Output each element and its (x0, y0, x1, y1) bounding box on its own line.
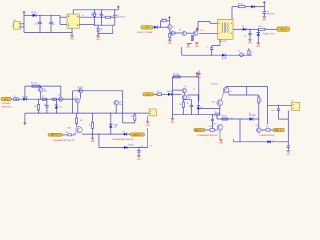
svg-text:GND: GND (90, 141, 95, 143)
svg-text:485_A: 485_A (280, 28, 286, 31)
svg-text:R2 10k: R2 10k (162, 18, 167, 20)
svg-text:5V1: 5V1 (59, 106, 62, 108)
svg-text:10k: 10k (34, 106, 37, 108)
svg-text:10k: 10k (179, 104, 182, 106)
svg-text:Q7: Q7 (75, 97, 77, 99)
svg-text:R11 100: R11 100 (221, 116, 227, 118)
svg-text:104: 104 (52, 24, 55, 26)
svg-text:1.5k&R69(R73)&C35!: 1.5k&R69(R73)&C35! (197, 135, 219, 137)
svg-text:GND: GND (170, 122, 175, 124)
svg-text:D6: D6 (249, 113, 251, 115)
svg-text:GND: GND (96, 39, 101, 41)
svg-text:1N4148W: 1N4148W (249, 115, 256, 117)
svg-text:R4 300: R4 300 (238, 3, 243, 5)
svg-text:1k: 1k (266, 124, 268, 126)
svg-text:100k: 100k (91, 15, 95, 17)
svg-text:P1: P1 (14, 20, 16, 22)
svg-text:GND: GND (70, 39, 75, 41)
svg-text:FB4.3V, 5.2V&6A!!: FB4.3V, 5.2V&6A!! (137, 31, 153, 34)
svg-text:C1: C1 (37, 22, 39, 24)
svg-text:4k7: 4k7 (171, 35, 174, 37)
svg-text:R10: R10 (66, 132, 69, 134)
svg-text:Q2: Q2 (179, 30, 181, 32)
svg-text:1N4148: 1N4148 (167, 91, 172, 93)
svg-text:1N4148: 1N4148 (222, 58, 228, 60)
svg-text:R13: R13 (209, 126, 212, 128)
svg-text:C2: C2 (52, 22, 54, 24)
svg-text:C9: C9 (150, 146, 152, 148)
svg-text:9014: 9014 (119, 104, 123, 106)
svg-text:C5: C5 (117, 15, 119, 17)
svg-text:C7: C7 (207, 46, 209, 48)
svg-text:470uF: 470uF (34, 24, 39, 26)
svg-text:104: 104 (271, 110, 274, 112)
svg-text:Q5: Q5 (58, 95, 60, 97)
svg-text:8050: 8050 (67, 128, 71, 130)
svg-text:1.5k&R70(R74)!: 1.5k&R70(R74)! (259, 135, 275, 137)
svg-text:104: 104 (272, 141, 275, 143)
svg-text:GND: GND (195, 46, 200, 48)
svg-text:Q12b: Q12b (256, 125, 260, 127)
svg-text:100: 100 (80, 120, 83, 122)
svg-text:GND: GND (168, 43, 173, 45)
svg-text:R12: R12 (266, 126, 269, 128)
svg-text:B3697&R17: B3697&R17 (2, 107, 12, 109)
svg-text:D4: D4 (123, 131, 125, 133)
svg-text:GND: GND (186, 47, 191, 49)
svg-text:P2: P2 (291, 100, 293, 102)
svg-text:AMP_1_-: AMP_1_- (133, 133, 142, 136)
svg-text:GND: GND (256, 46, 261, 48)
svg-text:Q8: Q8 (119, 102, 121, 104)
svg-text:(18750A) /: (18750A) / (2, 102, 11, 105)
svg-text:1k: 1k (231, 91, 233, 93)
svg-text:P6KE: P6KE (114, 124, 118, 126)
svg-text:10k: 10k (130, 116, 133, 118)
svg-text:GND: GND (197, 77, 202, 79)
svg-text:R5 1k: R5 1k (258, 26, 262, 28)
svg-text:Q4: Q4 (43, 88, 45, 90)
svg-text:9014: 9014 (43, 90, 47, 92)
svg-text:9014: 9014 (211, 101, 215, 103)
svg-text:9014: 9014 (187, 97, 191, 99)
svg-text:R1: R1 (92, 13, 94, 15)
svg-text:8550: 8550 (213, 124, 217, 126)
svg-text:GND: GND (248, 43, 253, 45)
svg-text:C: C (209, 117, 210, 119)
svg-text:Q1: Q1 (173, 27, 175, 29)
svg-text:Q10 8550: Q10 8550 (211, 83, 218, 85)
svg-text:R64&R68(R72)&C36!: R64&R68(R72)&C36! (113, 139, 134, 141)
svg-text:1k: 1k (260, 99, 262, 101)
svg-text:RS485_OUT!: RS485_OUT! (263, 34, 275, 36)
svg-text:104: 104 (44, 104, 47, 106)
svg-text:1k: 1k (193, 89, 195, 91)
svg-text:AMP_2_-: AMP_2_- (275, 129, 284, 132)
svg-text:104: 104 (186, 103, 189, 105)
svg-text:100uF/16V: 100uF/16V (117, 17, 126, 19)
svg-text:R8 100k: R8 100k (173, 74, 179, 76)
svg-text:F1: F1 (14, 96, 16, 98)
svg-text:F2: F2 (157, 91, 159, 93)
svg-text:6V8: 6V8 (114, 126, 117, 128)
svg-text:C3: C3 (99, 13, 101, 15)
svg-text:100uF/16V: 100uF/16V (267, 14, 276, 16)
svg-text:D8: D8 (242, 26, 244, 28)
svg-text:Q9: Q9 (184, 86, 186, 88)
svg-text:R6 100k: R6 100k (31, 83, 37, 85)
svg-text:GND: GND (219, 143, 224, 145)
svg-text:R7: R7 (42, 96, 44, 98)
svg-text:4k7: 4k7 (250, 52, 253, 54)
svg-text:1N4148: 1N4148 (128, 145, 133, 147)
svg-text:104: 104 (244, 35, 247, 37)
svg-text:GND: GND (262, 20, 267, 22)
svg-text:C6: C6 (267, 12, 269, 14)
svg-text:1k: 1k (89, 124, 91, 126)
svg-text:R3: R3 (171, 30, 173, 32)
svg-text:GND: GND (146, 125, 151, 127)
svg-text:D2 M7: D2 M7 (31, 12, 36, 14)
svg-text:AMP_1_+: AMP_1_+ (51, 134, 61, 137)
svg-text:R63&R67(R71)&C34!: R63&R67(R71)&C34! (54, 140, 75, 142)
svg-text:AMP_2_+: AMP_2_+ (195, 129, 205, 132)
svg-text:817: 817 (201, 30, 204, 32)
svg-text:Q3: Q3 (238, 50, 240, 52)
svg-text:Q6 8550: Q6 8550 (77, 87, 83, 89)
svg-text:104: 104 (141, 146, 144, 148)
svg-text:104: 104 (100, 29, 103, 31)
